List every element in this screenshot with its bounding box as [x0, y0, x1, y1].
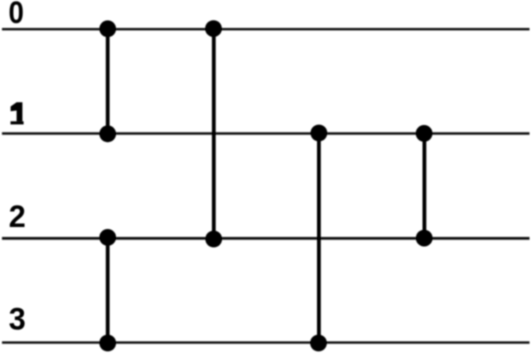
gate G2 connector wires 2-3: [106, 238, 110, 342]
label wire 1: [11, 102, 24, 124]
gate G3 connector wires 0-2 crossing wire 1: [212, 29, 216, 239]
dot G4 on wire 1: [311, 125, 328, 142]
dot G1 on wire 1: [99, 125, 116, 142]
qubit wire 1: [2, 132, 530, 134]
qubit wire 2: [2, 237, 530, 240]
dot G3 on wire 2: [205, 231, 222, 248]
svg-text:2: 2: [9, 198, 26, 234]
dot G4 on wire 3: [310, 335, 327, 352]
dot G1 on wire 0: [99, 20, 116, 37]
gate G4 connector wires 1-3 crossing wire 2: [317, 134, 321, 343]
svg-text:3: 3: [9, 301, 26, 337]
dot G5 on wire 1: [416, 125, 433, 142]
dot G2 on wire 3: [99, 335, 116, 352]
dot G5 on wire 2: [416, 230, 433, 247]
qubit wire 0: [2, 28, 530, 30]
qubit wire 3: [2, 341, 530, 343]
gate G5 connector wires 1-2: [422, 134, 426, 239]
svg-text:0: 0: [9, 0, 24, 30]
gate G1 connector wires 0-1: [106, 29, 110, 133]
dot G2 on wire 2: [99, 229, 116, 246]
dot G3 on wire 0: [205, 20, 222, 37]
